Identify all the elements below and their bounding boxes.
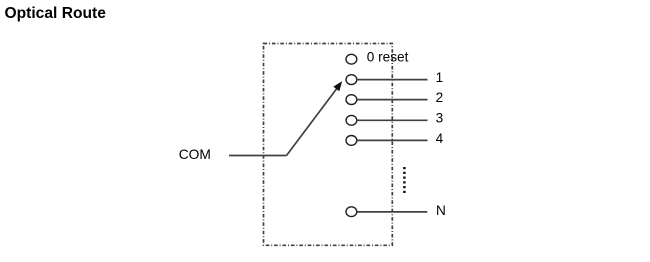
wire contact 3	[357, 119, 428, 121]
wire contact 2	[357, 99, 428, 101]
switch enclosure (dash-dot boundary)	[264, 44, 393, 246]
wire contact N	[357, 211, 428, 213]
svg-text:1: 1	[436, 70, 444, 85]
contact 1	[346, 75, 357, 85]
svg-text:N: N	[436, 203, 446, 218]
svg-text:Optical Route: Optical Route	[5, 5, 107, 22]
wire contact 1	[357, 79, 428, 81]
ellipsis (more contacts)	[403, 167, 406, 193]
svg-text:2: 2	[436, 90, 444, 105]
svg-text:4: 4	[436, 131, 444, 146]
wire contact 4	[357, 139, 428, 141]
contact N	[346, 207, 357, 217]
svg-text:3: 3	[436, 111, 444, 126]
contact 4	[346, 136, 357, 146]
contact 2	[346, 95, 357, 105]
contact 0 (reset)	[346, 54, 357, 64]
wire COM horizontal segment	[229, 155, 287, 157]
svg-text:COM: COM	[179, 147, 211, 162]
contact 3	[346, 115, 357, 125]
wiper arrow (COM to contact 1)	[287, 82, 342, 155]
svg-text:0 reset: 0 reset	[367, 49, 409, 64]
